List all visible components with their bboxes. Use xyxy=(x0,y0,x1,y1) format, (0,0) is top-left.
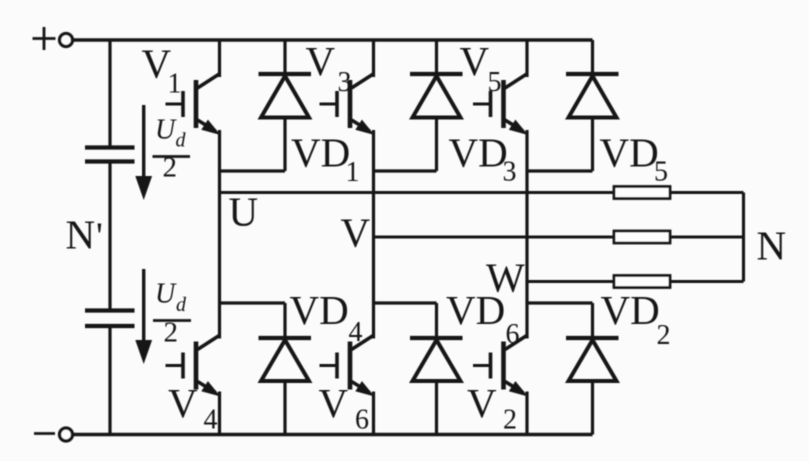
wire VD3 to junction xyxy=(435,118,438,172)
svg-text:U: U xyxy=(155,279,177,310)
svg-text:d: d xyxy=(176,294,187,316)
svg-text:2: 2 xyxy=(503,405,517,436)
diode VD1 xyxy=(259,74,312,118)
capacitor C2 xyxy=(85,311,135,327)
wire phase U line xyxy=(220,191,615,194)
label VD4 xyxy=(290,287,363,348)
wire +rail to V3 collector xyxy=(372,40,375,77)
label V3 xyxy=(306,38,352,98)
resistor load W xyxy=(614,276,670,288)
wire VD4 to -rail xyxy=(283,381,286,435)
voltage arrow Ud/2 upper xyxy=(135,105,152,200)
wire +rail to V1 collector xyxy=(218,40,221,77)
svg-text:V: V xyxy=(319,380,349,426)
svg-text:6: 6 xyxy=(355,405,369,436)
node U label xyxy=(229,189,259,235)
transistor V6 (IGBT) xyxy=(320,335,375,397)
transistor V4 (IGBT) xyxy=(166,335,221,397)
svg-text:5: 5 xyxy=(654,157,668,188)
svg-text:': ' xyxy=(96,216,103,258)
wire phase W line xyxy=(527,280,614,283)
wire +rail to VD5 xyxy=(591,40,594,74)
transistor V3 (IGBT) xyxy=(320,74,375,136)
svg-text:d: d xyxy=(176,130,187,152)
wire +rail to VD3 xyxy=(435,40,438,74)
wire phase V line xyxy=(374,235,615,238)
wire junction to VD4 xyxy=(283,303,286,338)
wire junction to VD6 xyxy=(435,303,438,338)
label VD5 xyxy=(600,129,669,187)
svg-text:2: 2 xyxy=(163,152,178,184)
label Ud/2 upper xyxy=(153,115,191,184)
svg-text:V: V xyxy=(168,380,198,426)
node V label xyxy=(341,210,371,256)
wire V3 emitter to phase V leg xyxy=(372,130,375,339)
positive terminal circle xyxy=(60,34,73,47)
wire bottom DC rail xyxy=(74,433,593,436)
label VD2 xyxy=(601,287,671,351)
diode VD4 xyxy=(259,338,312,381)
svg-text:W: W xyxy=(486,255,525,301)
label VD3 xyxy=(449,129,517,187)
wire top DC rail xyxy=(73,38,593,41)
wire VD5 to junction xyxy=(591,118,594,172)
svg-text:VD: VD xyxy=(290,287,349,333)
wire V6 emitter to -rail xyxy=(372,392,375,435)
svg-text:V: V xyxy=(460,38,490,84)
wire V1 emitter to phase U leg xyxy=(218,130,221,339)
wire junction V2/VD2 xyxy=(527,301,593,304)
svg-text:2: 2 xyxy=(657,320,671,351)
svg-text:1: 1 xyxy=(346,157,360,188)
wire V5 emitter to phase W leg xyxy=(525,130,528,339)
svg-text:U: U xyxy=(229,189,259,235)
positive supply terminal + sign xyxy=(33,27,56,50)
wire junction to VD2 xyxy=(591,303,594,338)
wire load U to N xyxy=(670,191,744,194)
negative supply terminal - sign xyxy=(34,432,55,435)
negative terminal circle xyxy=(60,428,73,441)
wire load W to N xyxy=(670,280,744,283)
svg-text:5: 5 xyxy=(488,67,502,98)
wire +rail to VD1 xyxy=(283,40,286,74)
svg-text:2: 2 xyxy=(164,317,179,349)
wire junction V4/VD4 xyxy=(220,301,286,304)
node N' label xyxy=(66,212,103,258)
svg-text:4: 4 xyxy=(204,405,218,436)
wire load V to N xyxy=(670,235,744,238)
label V2 xyxy=(467,380,517,436)
node N label xyxy=(757,223,787,269)
wire DC bus to C1 xyxy=(108,40,111,146)
label Ud/2 lower xyxy=(153,279,191,349)
label VD1 xyxy=(291,129,360,188)
voltage arrow Ud/2 lower xyxy=(135,269,152,364)
node W label xyxy=(486,255,525,301)
svg-text:N: N xyxy=(757,223,787,269)
svg-text:VD: VD xyxy=(291,129,350,175)
resistor load V xyxy=(614,231,670,243)
wire +rail to V5 collector xyxy=(525,40,528,77)
wire V2 emitter to -rail xyxy=(525,392,528,435)
svg-text:VD: VD xyxy=(449,129,508,175)
svg-text:V: V xyxy=(341,210,371,256)
svg-text:3: 3 xyxy=(503,157,517,188)
svg-text:VD: VD xyxy=(601,287,660,333)
transistor V5 (IGBT) xyxy=(473,74,528,136)
transistor V1 (IGBT) xyxy=(166,74,221,136)
transistor V2 (IGBT) xyxy=(473,335,528,397)
wire VD2 to -rail xyxy=(591,381,594,435)
svg-text:V: V xyxy=(306,38,336,84)
wire VD6 to -rail xyxy=(435,381,438,435)
wire C1 to C2 xyxy=(108,164,111,309)
svg-text:VD: VD xyxy=(600,129,659,175)
diode VD2 xyxy=(566,338,619,381)
wire junction V6/VD6 xyxy=(374,301,437,304)
diode VD5 xyxy=(566,74,619,118)
svg-text:1: 1 xyxy=(168,69,182,100)
wire VD1 to junction xyxy=(283,118,286,172)
label V5 xyxy=(460,38,502,98)
label V1 xyxy=(142,41,182,100)
wire junction V3/VD3 xyxy=(374,169,437,172)
resistor load U xyxy=(614,187,670,199)
label V4 xyxy=(168,380,218,436)
diode VD6 xyxy=(410,338,463,381)
label V6 xyxy=(319,380,370,436)
wire junction V5/VD5 xyxy=(527,169,593,172)
wire neutral vertical xyxy=(742,193,745,282)
svg-text:V: V xyxy=(467,380,497,426)
capacitor C1 xyxy=(85,148,135,162)
wire junction V1/VD1 xyxy=(220,169,286,172)
svg-text:3: 3 xyxy=(338,67,352,98)
label VD6 xyxy=(446,287,520,350)
svg-text:U: U xyxy=(155,115,177,146)
diode VD3 xyxy=(410,74,463,118)
svg-text:N: N xyxy=(66,212,96,258)
wire C2 to bottom rail xyxy=(108,328,111,435)
wire V4 emitter to -rail xyxy=(218,392,221,435)
